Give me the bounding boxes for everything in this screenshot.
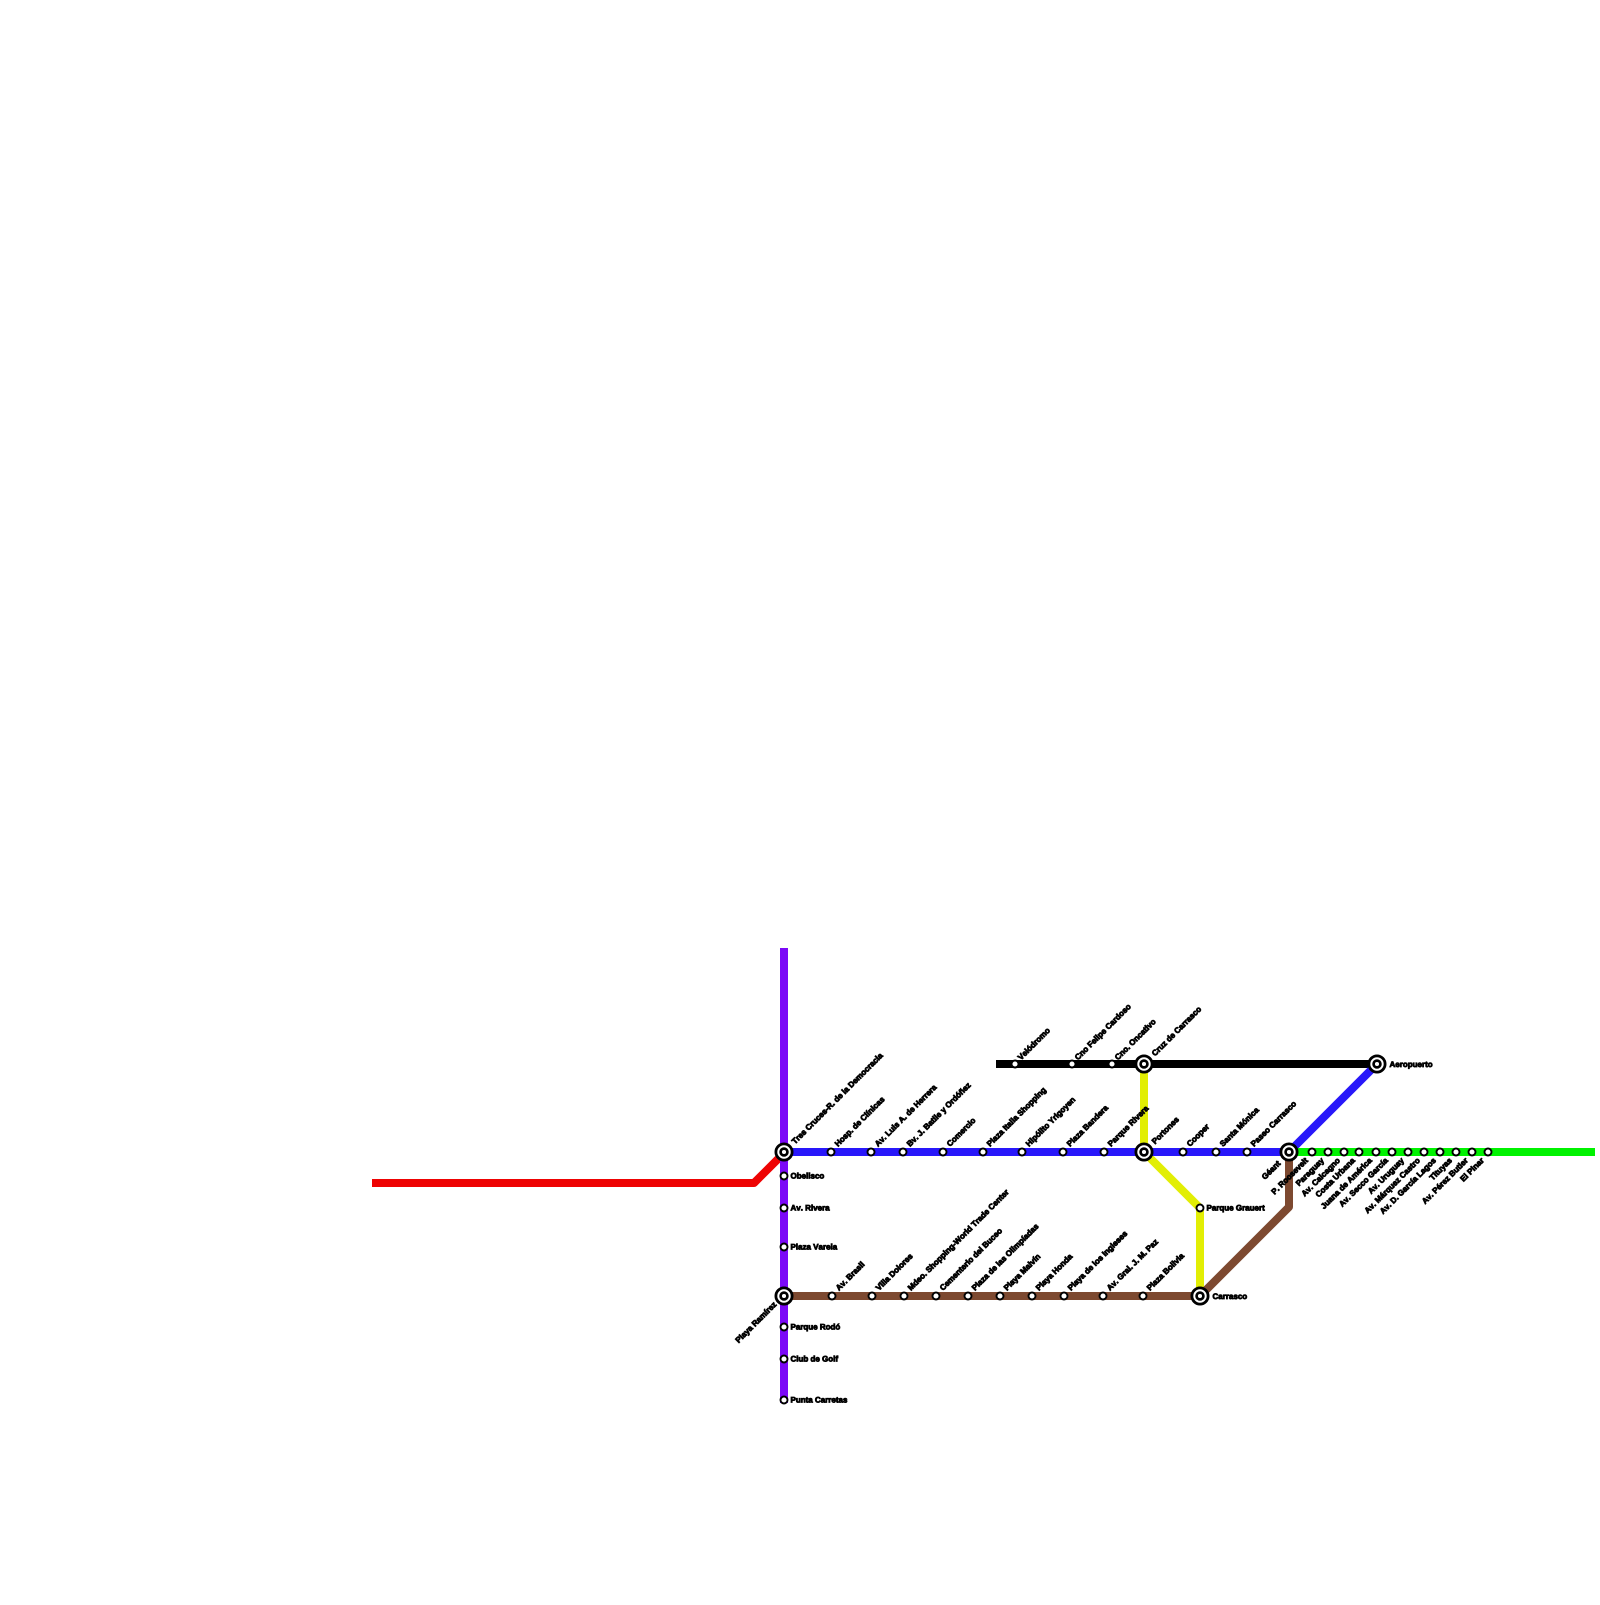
station Punta Carretas: [781, 1397, 848, 1404]
station Playa Malvín: [997, 1253, 1042, 1299]
station Av. Uruguay: [1367, 1149, 1411, 1196]
station Obelisco: [781, 1173, 824, 1180]
station Plaza Italia Shopping: [980, 1087, 1048, 1156]
station Bv. J. Batlle y Ordóñez: [900, 1082, 973, 1156]
station Mdeo. Shopping-World Trade Center: [901, 1189, 1011, 1300]
station Géant: [1261, 1144, 1297, 1180]
station Parque Rodó: [781, 1324, 840, 1332]
station Av. Márquez Castro: [1364, 1149, 1428, 1215]
station Av. Rivera: [781, 1205, 830, 1212]
station Parque Grauert: [1197, 1205, 1265, 1213]
station Plaza Varela: [781, 1244, 838, 1251]
red line west branch: [372, 1153, 784, 1183]
station Cooper: [1180, 1123, 1211, 1155]
station Hipólito Yrigoyen: [1019, 1096, 1077, 1155]
station Plaza Bolivia: [1140, 1252, 1185, 1299]
station Comercio: [940, 1117, 976, 1155]
station Playa Ramírez: [735, 1288, 792, 1344]
station Cruz de Carrasco: [1136, 1006, 1202, 1072]
station Plaza de las Olimpíadas: [965, 1223, 1041, 1300]
station Paraguay: [1296, 1149, 1332, 1188]
station Cementerio del Buceo: [933, 1227, 1003, 1299]
station P. Roosevelt: [1271, 1149, 1316, 1195]
station Plaza Bandera: [1060, 1104, 1109, 1155]
station Juana de América: [1320, 1149, 1379, 1210]
station Club de Golf: [781, 1356, 839, 1363]
station Playa de los Ingleses: [1061, 1230, 1129, 1299]
station Villa Dolores: [869, 1253, 914, 1300]
black line airport: [996, 1060, 1377, 1068]
station Tituyas: [1429, 1149, 1460, 1182]
station Velódromo: [1012, 1027, 1051, 1067]
station Av. Calcagno: [1301, 1149, 1348, 1198]
station Costa Urbana: [1315, 1149, 1363, 1198]
brown line Playa Ramirez-Geant: [784, 1152, 1289, 1296]
station Portones: [1136, 1116, 1179, 1160]
station Av. D. García Lagos: [1379, 1149, 1443, 1216]
station Parque Rivera: [1101, 1105, 1151, 1156]
station Av. Secco García: [1338, 1149, 1395, 1208]
station Av. Gral. J. M. Paz: [1100, 1238, 1159, 1299]
station Paseo Carrasco: [1244, 1101, 1297, 1156]
station Av. Luis A. de Herrera: [868, 1084, 938, 1156]
blue line Tres Cruces-Aeropuerto: [784, 1064, 1377, 1152]
station Aeropuerto: [1369, 1056, 1432, 1072]
station Cno Felipe Cardoso: [1069, 1003, 1133, 1067]
green line Geant-El Pinar: [1289, 1148, 1595, 1156]
station Carrasco: [1192, 1288, 1247, 1304]
yellow line Cruz de Carrasco-Carrasco: [1144, 1064, 1200, 1296]
station Santa Mónica: [1213, 1106, 1260, 1155]
station El Pinar: [1460, 1149, 1492, 1182]
purple line Punta Carretas: [780, 948, 788, 1403]
station Av. Brasil: [829, 1261, 865, 1299]
station Tres Cruces-R. de la Democracia: [776, 1052, 884, 1160]
station Playa Honda: [1029, 1253, 1075, 1300]
station Av. Pérez Butler: [1421, 1149, 1475, 1205]
station Cno. Oncativo: [1109, 1018, 1157, 1067]
station Hosp. de Clínicas: [828, 1096, 887, 1156]
